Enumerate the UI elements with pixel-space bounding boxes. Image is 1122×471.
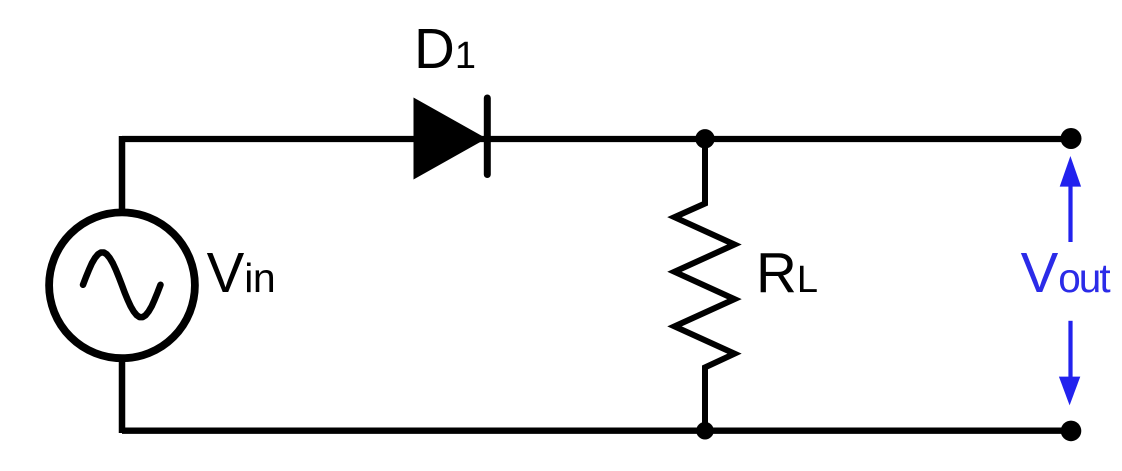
svg-text:RL: RL: [756, 241, 818, 304]
svg-text:D1: D1: [414, 17, 476, 80]
svg-text:Vout: Vout: [1021, 241, 1111, 304]
svg-text:Vin: Vin: [207, 241, 276, 304]
